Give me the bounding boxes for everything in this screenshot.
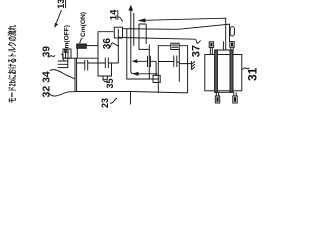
wire G4 stubs (158, 62, 191, 64)
capsule component on line C (114, 27, 122, 38)
motor rotor bar right dark (230, 50, 233, 92)
svg-text:31: 31 (246, 67, 260, 81)
shaft pair from line A (223, 41, 225, 50)
wire vertical x156 drop (154, 61, 159, 75)
brake Bm comb teeth (58, 58, 68, 68)
motor rotor bar left dark (215, 50, 218, 92)
svg-text:Bm(OFF): Bm(OFF) (64, 25, 71, 53)
box planetary unit 1 (98, 32, 114, 76)
wire bracket verticals x139 x146 (139, 24, 146, 49)
motor rotor top and bottom edges (215, 50, 233, 92)
leader wavy 39 (49, 55, 56, 57)
leader wavy 34 (50, 70, 76, 79)
node 13 leader arrow (56, 10, 61, 23)
fuse leg top 2 (230, 42, 234, 48)
capacitor gear G4 inside box B (174, 56, 177, 68)
wire left tall vertical pair (75, 58, 77, 91)
svg-text:35: 35 (105, 78, 115, 88)
brace 31 (242, 68, 249, 70)
wire bottom long line (75, 92, 187, 93)
leader wavy 36 (108, 43, 119, 48)
arrow 14 up stem (131, 9, 134, 74)
wire vertical x134 (133, 13, 135, 46)
brake Bm box (63, 49, 71, 58)
arrow left inside boxA (134, 73, 157, 75)
capacitor gear G3 (148, 56, 151, 67)
svg-text:32 34: 32 34 (41, 71, 53, 97)
wire line C long (123, 24, 230, 41)
box unit B (158, 46, 187, 93)
wire clutch drop (76, 48, 78, 58)
wire vertical x118.3 (117, 29, 119, 63)
capsule component right on line C end (230, 27, 234, 36)
svg-text:13: 13 (56, 0, 66, 9)
label 13 underline (65, 0, 67, 8)
leader wavy Cm (80, 38, 83, 43)
arrowhead 14 up (129, 5, 134, 11)
fuse leg bottom 2 (234, 92, 236, 96)
svg-text:36: 36 (102, 38, 113, 50)
wire line D to label 37 (118, 37, 194, 39)
clutch Cm dark striped box (77, 44, 87, 48)
svg-text:37: 37 (190, 45, 202, 57)
wire stub down node 23 (130, 92, 132, 105)
node tab under box1 (103, 76, 107, 79)
svg-text:モード2bにおけるトルクの流れ: モード2bにおけるトルクの流れ (7, 25, 18, 103)
node 14 leader (118, 17, 123, 22)
wire G2 stubs (98, 62, 118, 64)
leader wavy 32 (49, 92, 75, 96)
wire G3 stubs (134, 60, 157, 62)
leader wavy 35 (103, 80, 108, 82)
svg-text:Cm(ON): Cm(ON) (80, 12, 87, 37)
leader wavy 37 (194, 39, 200, 43)
wire horizontal rail y58 (63, 57, 98, 59)
svg-text:23: 23 (100, 98, 110, 108)
svg-text:39: 39 (42, 46, 53, 58)
box small eq component on unit B top (171, 43, 179, 49)
arrowhead line A (137, 18, 145, 22)
capacitor gear G1 on shaft (85, 60, 88, 71)
label 14 underline (117, 10, 119, 20)
wire shaft stubs G1 (77, 62, 98, 64)
leader wavy 23 (110, 98, 117, 103)
capacitor gear G2 in box1 (105, 58, 108, 69)
fuse leg top 1 (209, 42, 213, 48)
motor stator outer box (205, 55, 242, 91)
wire line A with left arrowhead (144, 18, 226, 41)
wire clutch connector to box1 (86, 45, 97, 47)
box small square at unit B bottom-left (153, 75, 160, 82)
fuse leg bottom 1 (216, 92, 218, 96)
leader wavy Bm (61, 54, 64, 61)
box unit A (127, 29, 159, 79)
